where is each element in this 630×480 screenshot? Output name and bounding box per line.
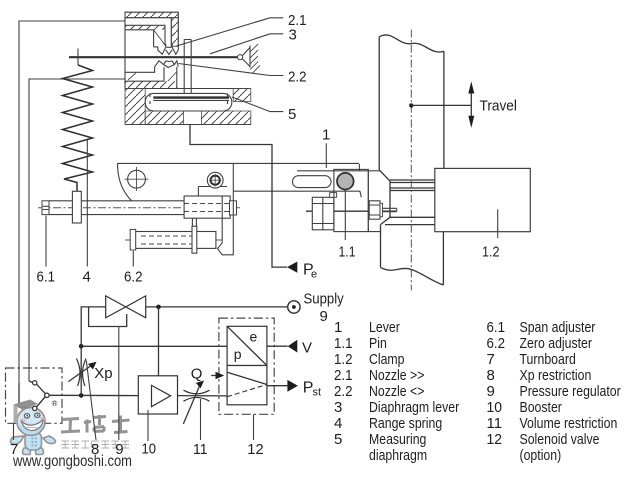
svg-text:8: 8 [91, 441, 99, 458]
svg-text:Volume restriction: Volume restriction [520, 415, 618, 432]
svg-text:Supply: Supply [304, 291, 345, 308]
svg-text:Measuring: Measuring [369, 431, 426, 448]
svg-text:www.gongboshi.com: www.gongboshi.com [12, 453, 132, 470]
svg-text:6.2: 6.2 [124, 268, 143, 285]
svg-text:R: R [53, 401, 57, 407]
svg-text:5: 5 [288, 106, 296, 123]
svg-text:Diaphragm lever: Diaphragm lever [369, 399, 459, 416]
svg-text:Nozzle >>: Nozzle >> [369, 367, 425, 384]
svg-text:Xp restriction: Xp restriction [520, 367, 592, 384]
svg-text:Q: Q [191, 365, 203, 382]
svg-text:1.1: 1.1 [339, 244, 356, 261]
svg-text:Turnboard: Turnboard [520, 351, 576, 368]
svg-text:10: 10 [142, 441, 157, 458]
svg-text:2.2: 2.2 [334, 383, 353, 400]
svg-text:11: 11 [193, 441, 208, 458]
svg-text:st: st [313, 387, 322, 399]
svg-text:Pin: Pin [369, 335, 387, 352]
svg-text:Nozzle <>: Nozzle <> [369, 383, 425, 400]
svg-text:Xp: Xp [94, 365, 112, 382]
svg-text:1.2: 1.2 [482, 244, 500, 261]
svg-text:p: p [234, 346, 242, 362]
svg-text:Travel: Travel [480, 98, 517, 115]
svg-text:4: 4 [83, 268, 91, 285]
svg-text:9: 9 [487, 383, 495, 400]
svg-text:1: 1 [322, 127, 330, 144]
svg-text:12: 12 [247, 441, 263, 458]
svg-text:6.1: 6.1 [487, 319, 506, 336]
svg-text:7: 7 [487, 351, 495, 368]
svg-text:6.1: 6.1 [37, 268, 56, 285]
svg-text:Booster: Booster [520, 399, 562, 416]
svg-text:3: 3 [289, 27, 297, 44]
svg-text:1: 1 [334, 319, 342, 336]
svg-text:diaphragm: diaphragm [369, 447, 427, 464]
svg-text:e: e [311, 269, 317, 281]
svg-text:9: 9 [320, 308, 328, 325]
svg-text:e: e [250, 328, 258, 344]
svg-text:6.2: 6.2 [487, 335, 506, 352]
svg-text:5: 5 [334, 431, 342, 448]
svg-text:3: 3 [334, 399, 342, 416]
svg-text:(option): (option) [520, 447, 562, 464]
svg-text:Zero adjuster: Zero adjuster [520, 335, 593, 352]
svg-text:Range spring: Range spring [369, 415, 442, 432]
svg-text:2.1: 2.1 [334, 367, 353, 384]
svg-text:V: V [302, 340, 312, 357]
svg-text:8: 8 [487, 367, 495, 384]
svg-text:12: 12 [487, 431, 503, 448]
svg-text:1.1: 1.1 [334, 335, 353, 352]
svg-text:Clamp: Clamp [369, 351, 405, 368]
svg-text:Lever: Lever [369, 319, 400, 336]
svg-text:10: 10 [487, 399, 503, 416]
svg-text:7: 7 [10, 441, 18, 458]
svg-text:Span adjuster: Span adjuster [520, 319, 596, 336]
svg-text:1.2: 1.2 [334, 351, 353, 368]
svg-text:11: 11 [487, 415, 503, 432]
svg-text:2.2: 2.2 [288, 69, 307, 86]
svg-text:9: 9 [115, 441, 123, 458]
svg-text:4: 4 [334, 415, 342, 432]
svg-text:Solenoid valve: Solenoid valve [520, 431, 600, 448]
svg-text:Pressure regulator: Pressure regulator [520, 383, 621, 400]
